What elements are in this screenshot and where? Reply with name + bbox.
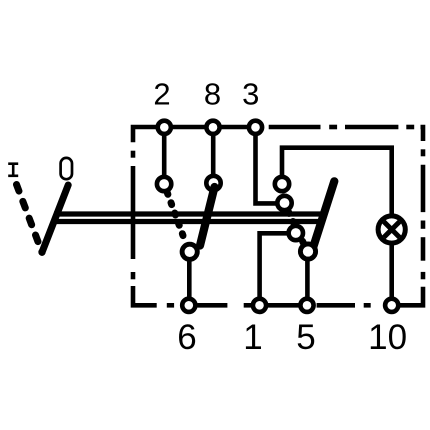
pole A solid blade (contact 8 to pivot) bbox=[200, 187, 215, 246]
terminal 2 bbox=[158, 121, 171, 134]
pole A pivot contact bbox=[182, 244, 197, 259]
terminal 6 bbox=[182, 299, 195, 312]
terminal 1 bbox=[253, 299, 266, 312]
housing border bottom dot bbox=[244, 303, 251, 308]
housing border bottom right corner bbox=[400, 287, 423, 306]
wire from terminal 3 to fixed contact B bbox=[256, 127, 285, 203]
housing border right dot bbox=[421, 149, 426, 156]
svg-text:3: 3 bbox=[242, 77, 259, 112]
actuator bar lower line bbox=[52, 219, 321, 224]
pole B fixed contact A (lamp feed) bbox=[275, 177, 289, 191]
housing border top dot bbox=[406, 125, 414, 130]
label lever position I bbox=[8, 164, 18, 176]
pole B dashed blade (through contacts B and C) bbox=[288, 212, 303, 243]
svg-text:5: 5 bbox=[296, 318, 315, 357]
terminal 8 bbox=[206, 121, 219, 134]
housing border bottom dash bbox=[317, 303, 355, 308]
housing border bottom dash bbox=[198, 303, 228, 308]
svg-text:10: 10 bbox=[368, 318, 407, 357]
housing border right dot bbox=[421, 221, 426, 229]
pole B pivot contact bbox=[300, 244, 315, 259]
lamp L1 cross stroke bbox=[384, 222, 400, 238]
housing border top solid segment with left corner bbox=[133, 127, 264, 142]
label lever position 0 bbox=[61, 158, 72, 179]
pole B fixed contact C (terminal 1) bbox=[289, 226, 303, 240]
lamp L1 body bbox=[378, 216, 405, 243]
svg-text:1: 1 bbox=[243, 318, 262, 357]
svg-text:8: 8 bbox=[204, 77, 221, 112]
wire from terminal 8 down to fixed contact bbox=[211, 127, 216, 183]
pole A fixed contact from terminal 2 bbox=[157, 177, 171, 191]
wire link between terminal 1 and terminal 5 bbox=[260, 303, 308, 308]
wire from fixed contact A up and over to lamp bbox=[282, 148, 392, 215]
actuator bar upper line bbox=[54, 211, 323, 216]
svg-text:6: 6 bbox=[177, 318, 196, 357]
housing border top dot bbox=[329, 125, 337, 130]
pole A fixed contact from terminal 8 bbox=[206, 176, 220, 190]
wire from pole A pivot down to terminal 6 bbox=[187, 252, 192, 305]
housing border top dash bbox=[269, 125, 321, 130]
housing border top right corner bbox=[421, 127, 424, 141]
housing border right dash bbox=[421, 237, 426, 261]
wire from terminal 2 down to fixed contact bbox=[162, 127, 167, 184]
pole A dashed blade (contact 2 to pivot) bbox=[167, 192, 185, 242]
lamp L1 cross stroke bbox=[384, 222, 400, 238]
pole B solid blade (free end) bbox=[312, 181, 335, 252]
housing border left dash bbox=[131, 166, 136, 259]
housing border top dash bbox=[345, 125, 398, 130]
housing border left dot bbox=[131, 272, 136, 279]
housing border bottom dot bbox=[167, 303, 174, 308]
svg-text:2: 2 bbox=[153, 77, 170, 112]
terminal 10 bbox=[385, 299, 398, 312]
wire from lamp down to terminal 10 bbox=[389, 244, 394, 305]
housing border right dash bbox=[421, 165, 426, 212]
terminal 5 bbox=[300, 299, 313, 312]
lever dashed arm (position I) bbox=[17, 185, 43, 253]
housing border left dot bbox=[131, 151, 136, 158]
housing border right dot bbox=[421, 272, 426, 279]
housing border bottom dot bbox=[364, 303, 371, 308]
housing border bottom left corner bbox=[133, 286, 157, 305]
wire from fixed contact C over and down to terminal 1 bbox=[260, 233, 296, 305]
terminal 3 bbox=[249, 121, 262, 134]
lever solid arm (position 0) bbox=[42, 185, 68, 252]
pole B fixed contact B (terminal 3) bbox=[277, 196, 291, 210]
wire from pole B pivot down to terminal 5 bbox=[305, 252, 310, 306]
